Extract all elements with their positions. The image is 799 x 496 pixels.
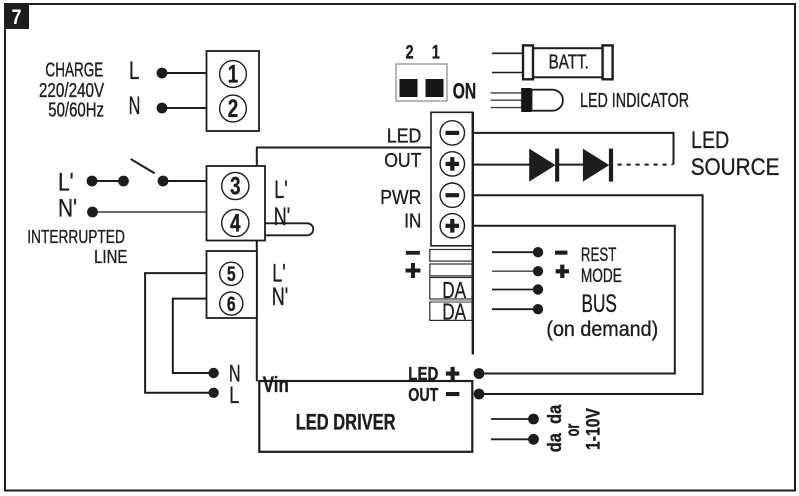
- svg-text:LED DRIVER: LED DRIVER: [296, 410, 396, 435]
- svg-text:N': N': [58, 194, 77, 222]
- svg-text:MODE: MODE: [581, 265, 622, 287]
- svg-text:(on demand): (on demand): [546, 317, 658, 341]
- svg-text:2: 2: [228, 94, 238, 122]
- svg-text:OUT: OUT: [408, 384, 438, 405]
- svg-text:LED: LED: [408, 363, 438, 384]
- svg-text:LED: LED: [691, 126, 729, 153]
- svg-text:1-10V: 1-10V: [582, 408, 604, 450]
- svg-text:1: 1: [228, 60, 238, 88]
- svg-text:L: L: [229, 383, 239, 409]
- svg-text:2: 2: [405, 40, 413, 63]
- svg-text:N': N': [272, 282, 288, 311]
- svg-text:L: L: [129, 56, 139, 84]
- svg-text:3: 3: [230, 172, 240, 200]
- svg-text:6: 6: [227, 292, 236, 316]
- svg-text:REST: REST: [581, 245, 616, 266]
- svg-text:Vin: Vin: [263, 373, 289, 398]
- svg-text:4: 4: [230, 209, 241, 237]
- svg-text:L': L': [274, 175, 287, 204]
- svg-text:BATT.: BATT.: [549, 50, 589, 73]
- svg-text:OUT: OUT: [384, 150, 421, 173]
- svg-text:DA: DA: [442, 300, 466, 325]
- svg-text:5: 5: [227, 262, 236, 286]
- svg-text:INTERRUPTED: INTERRUPTED: [27, 227, 125, 247]
- svg-text:50/60Hz: 50/60Hz: [48, 98, 104, 121]
- svg-text:7: 7: [12, 6, 22, 30]
- svg-text:IN: IN: [404, 210, 421, 233]
- svg-text:LINE: LINE: [94, 246, 127, 267]
- svg-text:N: N: [129, 93, 141, 120]
- svg-text:BUS: BUS: [582, 291, 617, 318]
- svg-text:SOURCE: SOURCE: [691, 154, 780, 181]
- svg-text:LED INDICATOR: LED INDICATOR: [580, 88, 689, 111]
- svg-text:ON: ON: [453, 80, 476, 104]
- svg-text:1: 1: [432, 40, 440, 63]
- svg-text:L': L': [58, 168, 74, 196]
- svg-text:or: or: [562, 423, 583, 436]
- svg-text:N': N': [274, 202, 290, 231]
- svg-text:PWR: PWR: [380, 187, 421, 210]
- svg-text:LED: LED: [387, 125, 421, 148]
